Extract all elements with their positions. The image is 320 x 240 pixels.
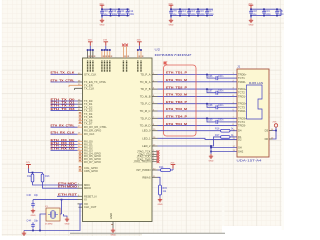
pin D6 (269, 138, 273, 140)
power symbol 2V5 (MDIO pullups) (26, 162, 31, 169)
capacitor C17 (205, 8, 214, 16)
capacitor C11 (117, 8, 126, 16)
svg-text:RX_D7_GPIO: RX_D7_GPIO (84, 160, 101, 164)
pin LED_0 (152, 130, 158, 132)
connector J1 body (237, 69, 269, 157)
svg-text:D6: D6 (265, 137, 269, 141)
pin ETH_RX_D0 (78, 141, 83, 143)
pin ETH_TX_D3 (78, 110, 83, 112)
wire ETH_TX_D3 (51, 110, 78, 112)
svg-text:TRD1-: TRD1- (238, 94, 246, 98)
blanket flag (164, 62, 168, 66)
right pin numbers (153, 129, 156, 178)
svg-text:JTAG_TRSTN: JTAG_TRSTN (133, 160, 150, 164)
svg-text:J1: J1 (237, 65, 241, 69)
svg-text:100n: 100n (218, 104, 224, 107)
wire ETH_TD1_P (158, 74, 238, 76)
op-amp U2 DP83867IRPAP PHY body (83, 58, 153, 222)
wire ETH_TD3_P (158, 103, 238, 105)
pin ETH_TD2_M (152, 95, 158, 97)
pin ETH_TX_CTRL (78, 81, 83, 83)
svg-text:10u: 10u (172, 13, 177, 16)
pin top (89, 50, 91, 58)
pin top nc (122, 46, 124, 58)
jack pin rows (233, 73, 248, 154)
svg-text:LED_2: LED_2 (142, 144, 151, 148)
unwired left pins (79, 112, 83, 171)
power symbol 2V5 (IC top group 4) (137, 40, 142, 46)
pin top (101, 50, 103, 58)
pin RBIAS (152, 176, 158, 178)
pin ETH_RX_CTRL (78, 126, 83, 128)
wire ETH_RX_D2 (51, 146, 78, 148)
wire top bus (171, 8, 213, 10)
svg-text:LED_1: LED_1 (142, 136, 151, 140)
svg-text:100n: 100n (129, 13, 135, 16)
pin PAD (IC bottom) (112, 222, 114, 229)
svg-text:R13: R13 (45, 175, 50, 178)
svg-text:GND: GND (169, 25, 174, 27)
svg-text:SH: SH (238, 146, 242, 150)
svg-text:100n: 100n (199, 13, 205, 16)
svg-text:100n: 100n (120, 13, 126, 16)
capacitor C12 (126, 8, 135, 16)
capacitor C18 (249, 8, 257, 16)
pin ETH_TD3_P (152, 103, 158, 105)
resistor R14 (INT pullup) (158, 166, 174, 172)
svg-text:TRD3-: TRD3- (238, 124, 246, 128)
wire ETH_TD4_M (158, 125, 238, 127)
svg-text:10u: 10u (252, 13, 257, 16)
svg-text:TD_M_A: TD_M_A (140, 80, 151, 84)
ground (C44) (22, 231, 26, 236)
svg-text:100n: 100n (265, 13, 271, 16)
svg-text:10u: 10u (103, 13, 108, 16)
wire XO net (bottom) (24, 204, 83, 231)
ground (100, 16, 105, 27)
ground (shield) (209, 152, 214, 163)
wire bottom bus (102, 15, 130, 17)
svg-text:DP83867IRPAP: DP83867IRPAP (155, 53, 192, 57)
RJ45 face (247, 81, 264, 119)
pin INT_PWDN (152, 169, 158, 171)
pin top nc (126, 46, 128, 58)
pin top (92, 50, 94, 58)
wire MDC from pullup (33, 182, 58, 185)
power symbol (LED anode) (273, 122, 278, 128)
pin ETH_RX_D3 (78, 149, 83, 151)
pin names left column (84, 72, 107, 209)
wire (138, 46, 141, 50)
capacitor C68 (206, 103, 237, 109)
wire ETH_RX_CTRL (51, 126, 78, 128)
pin D3 (269, 130, 273, 132)
svg-text:R12: R12 (27, 175, 32, 178)
capacitor C19 (262, 8, 271, 16)
wire bank3 end (280, 9, 282, 15)
capacitor C40 (100, 8, 108, 16)
vertical power pin names inside IC (88, 61, 141, 73)
svg-text:U2: U2 (155, 48, 161, 52)
resistor R12 (27, 174, 34, 182)
pin ETH_TX_CLK (78, 73, 83, 75)
wire LED_0 (158, 130, 221, 132)
pin ETH_TX_D0 (78, 100, 83, 102)
wire ETH_TX_CLK (51, 73, 78, 75)
svg-text:TD_P_B: TD_P_B (140, 87, 150, 91)
svg-text:100n: 100n (208, 13, 214, 16)
resistor R17 (215, 134, 237, 138)
svg-text:R14: R14 (159, 166, 164, 169)
ground (249, 16, 254, 27)
svg-text:C46: C46 (27, 194, 32, 197)
pin ETH_RX_D2 (78, 146, 83, 148)
svg-text:GND: GND (249, 25, 254, 27)
wire ETH_TD4_P (158, 117, 238, 119)
svg-text:TX_D3: TX_D3 (84, 109, 93, 113)
svg-text:100n: 100n (278, 13, 284, 16)
wire ETH_TX_CTRL (51, 81, 78, 83)
svg-text:GTX_CLK: GTX_CLK (84, 72, 96, 76)
resistor R15 11k (158, 177, 168, 197)
svg-text:CLK_OUT: CLK_OUT (84, 205, 97, 209)
pin ETH MDIO (78, 187, 83, 189)
svg-text:INT_PWDN: INT_PWDN (136, 168, 150, 172)
pin XI (78, 199, 83, 201)
pin names right column (133, 73, 151, 180)
wire bottom bus (251, 15, 281, 17)
svg-text:18p: 18p (34, 194, 39, 197)
blanket directive (diff pairs) (164, 65, 197, 136)
wire MDIO from pullup (43, 182, 58, 188)
wire LED_2 (158, 137, 221, 146)
capacitor C15 (275, 8, 284, 16)
svg-text:TX_CLK: TX_CLK (84, 86, 94, 90)
ground (RBIAS) (158, 198, 163, 206)
svg-text:C66: C66 (208, 75, 213, 78)
svg-text:TRD0+: TRD0+ (238, 73, 247, 77)
pin top (106, 50, 108, 58)
svg-text:TRD2+: TRD2+ (238, 102, 247, 106)
wire ETH_TX_D2 (51, 106, 78, 108)
pin ETH_RX_D1 (78, 144, 83, 146)
pin ETH MDC (78, 184, 83, 186)
svg-text:GND: GND (209, 160, 214, 162)
power symbol 1V0 (99, 3, 104, 9)
svg-text:TD_M_C: TD_M_C (140, 109, 151, 113)
svg-text:RBIAS: RBIAS (142, 175, 150, 179)
wire ETH_RX_D3 (51, 149, 78, 151)
wire ETH_TD1_M (158, 81, 238, 83)
pin top (87, 50, 89, 58)
capacitor C46 18p (27, 194, 39, 208)
wire ETH_RX_D0 (51, 141, 78, 143)
no-ERC marks on NC pins (122, 44, 128, 47)
pin CLK_OUT (79, 206, 83, 208)
wire ETH_TD2_P (158, 88, 238, 90)
svg-text:TD_M_B: TD_M_B (140, 94, 151, 98)
pin top (104, 50, 106, 58)
svg-text:CRS_GPIO: CRS_GPIO (84, 169, 98, 173)
svg-text:TRD1+: TRD1+ (238, 87, 247, 91)
svg-text:TD_P_A: TD_P_A (140, 73, 150, 77)
svg-text:R17: R17 (215, 134, 220, 137)
capacitor C14 (178, 8, 187, 16)
power symbol 1V8 (IC top group 2) (103, 40, 108, 46)
svg-text:TCT4: TCT4 (238, 120, 245, 124)
pin ETH RST (78, 195, 83, 197)
power symbol 1V8 (168, 3, 173, 9)
svg-text:XI: XI (84, 198, 87, 202)
wire top bus (102, 8, 130, 10)
resistor R13 (41, 174, 50, 182)
svg-text:100n: 100n (112, 13, 118, 16)
svg-text:D4: D4 (238, 129, 242, 133)
svg-text:TD_P_C: TD_P_C (140, 102, 150, 106)
pin ETH_TX_D1 (78, 103, 83, 105)
svg-text:TCT2: TCT2 (238, 91, 245, 95)
power symbol 2V5 (INT pullup) (170, 163, 175, 170)
capacitor C70 (169, 8, 177, 16)
svg-text:TCT3: TCT3 (238, 105, 245, 109)
wire crystal right to XI (60, 200, 62, 214)
pin ETH_TX_D2 (78, 106, 83, 108)
wire ETH_TD2_M (158, 95, 238, 97)
wire shield (210, 145, 237, 152)
ground (crystal case) (64, 214, 70, 225)
pin ETH_TD4_P (152, 117, 158, 119)
svg-text:TCT1: TCT1 (238, 76, 245, 80)
svg-text:100n: 100n (218, 119, 224, 122)
wire bottom bus (171, 15, 213, 17)
pin ETH_RX_CLK (78, 133, 83, 135)
wire ETH MDIO (57, 187, 78, 189)
svg-text:100n: 100n (181, 13, 187, 16)
wire ETH_TD3_M (158, 110, 238, 112)
pin ETH_TD2_P (152, 88, 158, 90)
svg-text:TRD3+: TRD3+ (238, 116, 247, 120)
svg-text:TX_D7: TX_D7 (84, 122, 93, 126)
wire ETH_TX_D0 (51, 100, 78, 102)
svg-text:25 MHz: 25 MHz (45, 224, 53, 226)
svg-text:GND: GND (158, 204, 163, 206)
svg-text:RX_ER_GPIO: RX_ER_GPIO (84, 128, 101, 132)
svg-text:LED_0: LED_0 (142, 129, 151, 133)
pin top (140, 50, 142, 58)
capacitor C44 18p (27, 220, 39, 231)
pin TX_ER stub (69, 85, 83, 87)
capacitor C69 (206, 117, 237, 123)
svg-text:UDA-15T-A4: UDA-15T-A4 (237, 159, 262, 163)
wire LED anodes (273, 127, 277, 139)
svg-text:100n: 100n (190, 13, 196, 16)
wire ETH_TX_D1 (51, 103, 78, 105)
ground (169, 16, 174, 27)
svg-text:RX_CLK: RX_CLK (84, 132, 95, 136)
wire ETH RST (57, 195, 78, 197)
svg-text:TD_P_D: TD_P_D (140, 116, 150, 120)
wire (88, 46, 93, 50)
svg-text:MDIO: MDIO (84, 186, 91, 190)
svg-text:TRD2-: TRD2- (238, 109, 246, 113)
svg-text:GND: GND (65, 223, 70, 225)
svg-text:18p: 18p (34, 220, 39, 223)
pin XO (78, 203, 83, 205)
svg-text:RJ45 LAN: RJ45 LAN (249, 81, 263, 85)
capacitor C13 (187, 8, 196, 16)
svg-text:GND: GND (109, 213, 113, 219)
svg-text:GND: GND (100, 25, 105, 27)
crystal X1 25MHz (45, 206, 60, 226)
svg-text:C69: C69 (208, 119, 213, 122)
power symbol 1V0 (IC top group 1) (88, 40, 93, 46)
pin ETH_TD3_M (152, 110, 158, 112)
pin top (137, 50, 139, 58)
no-ERC marks JTAG pins (152, 150, 159, 163)
pin LED_2 (152, 145, 158, 147)
top pin numbers (88, 56, 143, 57)
wire pullup top (29, 169, 43, 175)
svg-text:100n: 100n (218, 75, 224, 78)
sheet edge white (0, 0, 2, 240)
capacitor C66 (206, 74, 237, 80)
svg-text:SH2: SH2 (238, 150, 244, 154)
wire top bus (251, 8, 281, 10)
wire crystal left down (40, 214, 46, 231)
svg-text:GND: GND (31, 215, 36, 217)
wire XI net (33, 199, 78, 201)
svg-text:R16: R16 (215, 128, 220, 131)
wire (102, 46, 110, 50)
svg-text:TD_M_D: TD_M_D (140, 124, 151, 128)
wire ETH_RX_D1 (51, 144, 78, 146)
capacitor C67 (206, 88, 237, 94)
ground (C46) (31, 209, 36, 217)
pin top (109, 50, 111, 58)
wire ETH MDC (57, 184, 78, 186)
wire LED_1 (158, 138, 238, 139)
pin ETH_TD4_M (152, 125, 158, 127)
svg-text:100n: 100n (218, 90, 224, 93)
svg-text:D3: D3 (265, 129, 269, 133)
capacitor C16 (196, 8, 205, 16)
svg-text:C68: C68 (208, 104, 213, 107)
svg-text:TRD0-: TRD0- (238, 80, 246, 84)
svg-text:D2: D2 (238, 137, 242, 141)
svg-text:C67: C67 (208, 90, 213, 93)
capacitor C10 (109, 8, 118, 16)
pin LED_1 (152, 137, 158, 139)
wire ETH_RX_CLK (51, 133, 78, 135)
pin ETH_TD1_M (152, 81, 158, 83)
resistor R16 (215, 128, 237, 132)
ground (IC pad) (111, 228, 116, 236)
pin TX_CLK stub (75, 88, 83, 90)
pin ETH_TD1_P (152, 74, 158, 76)
power symbol 2V5 (248, 3, 253, 9)
svg-text:C44: C44 (27, 220, 32, 223)
